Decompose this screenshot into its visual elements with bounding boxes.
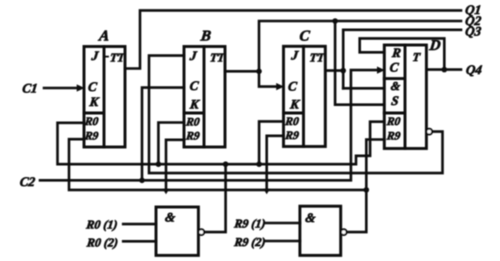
wire Q2 down to C clock <box>259 71 277 86</box>
wire C output to junction <box>325 69 343 72</box>
AND gate 2 box <box>300 206 341 255</box>
AND gate 1 box <box>156 207 198 255</box>
junction B R0 on R0 bus <box>156 161 162 167</box>
wire D R9 riser and gate2 output <box>347 140 385 233</box>
junction Q3 tap on C output <box>340 68 346 74</box>
svg-text:&: & <box>390 79 402 93</box>
svg-text:J: J <box>188 48 198 63</box>
svg-text:C: C <box>287 79 298 94</box>
svg-text:TT: TT <box>209 51 226 65</box>
clock arrow at A C-input <box>77 84 85 91</box>
svg-text:R9: R9 <box>184 130 200 142</box>
svg-text:J: J <box>90 48 100 63</box>
wire Q2 line down to D S-input <box>335 21 384 105</box>
svg-text:TT: TT <box>109 51 126 65</box>
wire B R0 riser <box>158 123 184 165</box>
clock arrow at D C-input <box>377 67 385 74</box>
wire R0 bus from A R0 to D R0 <box>58 122 385 165</box>
wire R9 bus from A R9 <box>69 139 366 190</box>
svg-text:R9: R9 <box>385 130 401 142</box>
clock arrow at C C-input <box>276 83 284 90</box>
wire inverse Q4 bus to B J-input <box>149 56 443 174</box>
svg-text:R9 (1): R9 (1) <box>233 217 267 231</box>
wire C R9 riser <box>267 136 284 189</box>
junction Q4 tap on output line <box>442 67 448 73</box>
wire C1 input to A clock <box>44 87 78 90</box>
svg-text:A: A <box>97 28 110 44</box>
wire Q3 junction to D AND-input <box>343 87 384 90</box>
wire B R9 riser <box>166 140 184 189</box>
svg-text:R0: R0 <box>83 116 99 128</box>
junction Q2 line to S drop <box>332 18 338 24</box>
inverter bubble D inverse output <box>426 129 432 135</box>
svg-text:R9: R9 <box>284 130 300 142</box>
wire C2 bus to D clock <box>40 70 378 180</box>
svg-text:K: K <box>289 96 302 111</box>
svg-text:R9 (2): R9 (2) <box>233 235 267 249</box>
svg-text:C: C <box>87 79 98 94</box>
tick on A divider <box>104 56 108 58</box>
svg-text:C: C <box>299 28 312 44</box>
svg-text:C: C <box>389 60 400 75</box>
wire gate1 output riser to R0 bus <box>204 164 225 232</box>
junction B clock on C2 bus <box>139 178 145 184</box>
svg-text:R0 (2): R0 (2) <box>85 236 119 250</box>
svg-text:K: K <box>188 97 201 112</box>
svg-text:R0: R0 <box>284 116 300 128</box>
arrow junction C R9 on bus <box>263 189 270 195</box>
wire A output to Q1 line <box>125 10 461 68</box>
wire Q4 output line <box>426 68 461 71</box>
svg-text:D: D <box>428 38 442 54</box>
arrow junction B R9 on bus <box>163 189 170 195</box>
svg-text:&: & <box>164 210 176 225</box>
svg-text:C: C <box>189 78 200 93</box>
svg-text:R0: R0 <box>385 116 401 128</box>
svg-text:C1: C1 <box>22 81 39 96</box>
svg-text:TT: TT <box>309 51 326 65</box>
flip-flop A box <box>84 47 125 148</box>
flip-flop B box <box>184 47 225 148</box>
wire gate2 input R9(1) <box>265 222 300 225</box>
svg-text:R0: R0 <box>184 117 200 129</box>
svg-text:C2: C2 <box>19 174 36 189</box>
svg-text:&: & <box>305 210 317 225</box>
junction C R0 on R0 bus <box>256 161 262 167</box>
svg-text:S: S <box>390 93 399 108</box>
junction Q2 tap on B output <box>256 69 262 75</box>
wire Q3 line from junction <box>343 30 461 89</box>
wire gate1 input R0(2) <box>123 240 156 243</box>
svg-text:R0 (1): R0 (1) <box>85 218 119 232</box>
wire C R0 riser <box>259 121 283 164</box>
svg-text:K: K <box>88 94 101 109</box>
wire gate1 input R0(1) <box>123 223 156 226</box>
wire B clock riser from C2 bus <box>142 88 184 181</box>
svg-text:T: T <box>412 50 422 64</box>
svg-text:B: B <box>199 28 212 44</box>
flip-flop C box <box>284 46 326 146</box>
svg-text:Q4: Q4 <box>465 62 483 77</box>
wire gate2 input R9(2) <box>265 240 300 243</box>
wire B output riser to Q2 line <box>225 21 461 71</box>
svg-text:J: J <box>290 47 300 62</box>
svg-text:R: R <box>390 45 402 60</box>
inverter bubble gate1 output <box>198 229 204 235</box>
wire Q4 feedback loop to D R-input <box>360 38 445 69</box>
inverter bubble gate2 output <box>341 229 347 235</box>
svg-text:R9: R9 <box>83 131 99 143</box>
junction gate1 output on R0 bus <box>223 161 229 167</box>
flip-flop D box <box>384 45 426 149</box>
svg-text:Q3: Q3 <box>464 23 482 38</box>
junction R9 bus and D riser <box>364 187 370 193</box>
